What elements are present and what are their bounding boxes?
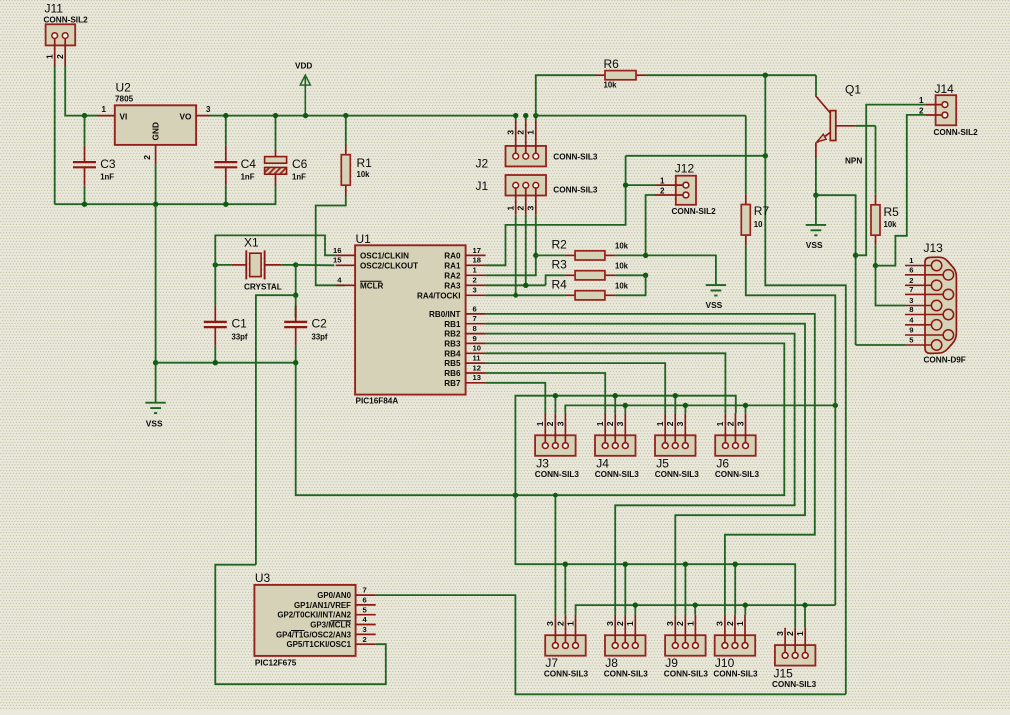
riser J5 pin2 <box>674 396 676 414</box>
svg-text:J13: J13 <box>924 241 944 255</box>
svg-text:J10: J10 <box>715 656 735 670</box>
J13 pin 5 hole <box>931 340 941 350</box>
svg-text:2: 2 <box>55 54 65 59</box>
riser J10 pin2 <box>734 564 736 615</box>
svg-text:R4: R4 <box>552 278 568 292</box>
wire RB2 to J8 pin3 <box>486 334 795 615</box>
riser J3 pin2 <box>554 396 556 414</box>
junction crystal right <box>293 262 298 267</box>
wire to J13 pin5 <box>856 344 905 346</box>
svg-text:3: 3 <box>715 621 725 626</box>
U3 pin 6 GP1/AN1/VREF <box>356 604 376 606</box>
riser J5 pin3 <box>684 405 686 413</box>
wire J11 pin2 to VDD rail <box>65 66 84 116</box>
wire R5 node to J14 pin2 <box>876 115 926 266</box>
wire VDD rail J2 to R7 <box>536 115 746 117</box>
connector J7 CONN-SIL3 <box>545 635 586 656</box>
U1 pin 3 RA4/TOCKI <box>466 294 486 296</box>
resistor R6 10k <box>595 74 605 76</box>
connector J8 CONN-SIL3 <box>605 635 646 656</box>
svg-text:3: 3 <box>615 421 625 426</box>
wire R5 bottom node <box>875 246 877 266</box>
svg-text:2: 2 <box>516 206 526 211</box>
svg-text:R7: R7 <box>754 204 770 218</box>
svg-text:GP0/AN0: GP0/AN0 <box>317 591 351 600</box>
J13 pin 7 hole <box>943 289 953 299</box>
U1 pin 16 OSC1/CLKIN <box>336 254 355 256</box>
svg-text:R1: R1 <box>357 156 373 170</box>
svg-text:2: 2 <box>725 621 735 626</box>
svg-text:33pf: 33pf <box>312 333 328 342</box>
J13 pin 8 hole <box>943 309 953 319</box>
svg-text:1: 1 <box>595 421 605 426</box>
svg-text:18: 18 <box>473 256 481 265</box>
capacitor C1 <box>214 265 216 306</box>
svg-text:VO: VO <box>180 112 193 122</box>
U1 MCLR overline <box>360 280 382 282</box>
svg-text:R3: R3 <box>552 258 568 272</box>
svg-text:17: 17 <box>473 246 481 255</box>
svg-text:J7: J7 <box>545 656 558 670</box>
svg-text:2: 2 <box>665 421 675 426</box>
svg-text:7: 7 <box>909 285 913 294</box>
crystal X1 <box>232 264 247 266</box>
U1 pin 10 RB4 <box>466 352 486 354</box>
resistor R3 10k <box>565 274 575 276</box>
svg-text:6: 6 <box>473 304 477 313</box>
svg-text:2: 2 <box>555 621 565 626</box>
ground symbol VSS middle <box>706 284 726 286</box>
U3 GP3 MCLR overline <box>331 620 352 622</box>
svg-text:GP4/T1G/OSC2/AN3: GP4/T1G/OSC2/AN3 <box>276 630 352 639</box>
svg-text:GND: GND <box>151 122 161 140</box>
svg-text:J14: J14 <box>935 82 955 96</box>
U1 pin 11 RB5 <box>466 362 486 364</box>
svg-text:VSS: VSS <box>806 240 823 250</box>
U2 pin 2 GND stub <box>155 145 157 164</box>
svg-text:10k: 10k <box>884 220 898 229</box>
bus pin1 of J7-J10 J15 <box>576 605 836 615</box>
connector J15 CONN-SIL3 <box>775 645 816 666</box>
U2 pin 1 VI stub <box>97 115 115 117</box>
wire J1 pin3 riser to RA2 row <box>486 215 536 276</box>
svg-text:RB3: RB3 <box>444 340 461 349</box>
svg-text:RA4/TOCKI: RA4/TOCKI <box>417 291 460 300</box>
svg-text:PIC12F675: PIC12F675 <box>255 659 297 668</box>
J13 pin 2 hole <box>931 280 941 290</box>
svg-text:J1: J1 <box>476 179 489 193</box>
connector J4 CONN-SIL3 <box>595 435 636 456</box>
connector J14 CONN-SIL2 <box>936 95 957 125</box>
IC U1 PIC16F84A <box>355 245 466 394</box>
bus pin2 of J7-J10 J15 <box>515 495 795 628</box>
svg-text:1: 1 <box>685 621 695 626</box>
svg-text:13: 13 <box>473 373 481 382</box>
J13 pin 7 stub <box>905 293 944 295</box>
wire R7 bottom to J buses <box>746 246 836 605</box>
svg-text:GP5/T1CKI/OSC1: GP5/T1CKI/OSC1 <box>287 640 352 649</box>
U3 pin 4 GP3/MCLR <box>356 624 376 626</box>
svg-text:2: 2 <box>142 155 152 160</box>
svg-text:J3: J3 <box>536 457 549 471</box>
junction J2 pin3 <box>513 113 518 118</box>
U2 pin 3 VO stub <box>196 115 210 117</box>
svg-text:NPN: NPN <box>845 157 862 166</box>
svg-text:J4: J4 <box>596 457 609 471</box>
junction R2 branch <box>533 253 538 258</box>
junction R1 top <box>343 113 348 118</box>
junction J14 pin1 join <box>853 253 858 258</box>
capacitor C6 electrolytic <box>275 116 277 151</box>
svg-text:1nF: 1nF <box>100 173 114 182</box>
wire J7 pin3 riser <box>554 495 556 615</box>
svg-text:6: 6 <box>909 265 913 274</box>
svg-text:GP3/MCLR: GP3/MCLR <box>310 621 351 630</box>
svg-text:CONN-SIL3: CONN-SIL3 <box>664 670 709 679</box>
U3 pin 5 GP2/T0CKI/INT/AN2 <box>356 614 376 616</box>
J13 pin 4 hole <box>931 320 941 330</box>
connector J10 CONN-SIL3 <box>715 635 756 656</box>
svg-text:C6: C6 <box>292 157 308 171</box>
wire RB1 to J9 pin3 <box>486 324 805 615</box>
J13 pin 8 stub <box>905 314 944 316</box>
junction J7 pin3 branch <box>553 493 558 498</box>
J13 pin 1 stub <box>905 265 932 267</box>
wire clock branch to U3 column <box>256 295 296 565</box>
junction C2 bottom <box>293 360 298 365</box>
VSS rail under crystal <box>156 362 296 364</box>
svg-text:1: 1 <box>45 54 55 59</box>
svg-text:J5: J5 <box>656 457 669 471</box>
wire riser x765 down <box>765 75 846 694</box>
power symbol VDD <box>300 75 310 85</box>
svg-text:2: 2 <box>785 631 795 636</box>
svg-text:VDD: VDD <box>295 62 312 71</box>
svg-text:CONN-SIL2: CONN-SIL2 <box>44 15 89 24</box>
svg-text:CONN-SIL2: CONN-SIL2 <box>934 128 979 137</box>
J13 pin 3 hole <box>931 300 941 310</box>
junction at VSS rail <box>153 360 158 365</box>
riser J4 pin2 <box>614 396 616 414</box>
junction R2 VSS net <box>643 253 648 258</box>
svg-text:Q1: Q1 <box>845 83 861 97</box>
svg-text:2: 2 <box>615 621 625 626</box>
wire Q1 emitter down <box>815 143 817 158</box>
svg-text:2: 2 <box>545 421 555 426</box>
wire J1 pin2 riser to RA3 row <box>525 215 527 286</box>
svg-text:10k: 10k <box>604 81 618 90</box>
svg-text:9: 9 <box>473 334 477 343</box>
svg-text:1: 1 <box>565 621 575 626</box>
svg-text:RA3: RA3 <box>444 281 461 290</box>
riser J10 pin1 <box>744 605 746 615</box>
svg-text:2: 2 <box>919 106 924 115</box>
svg-text:R6: R6 <box>604 57 620 71</box>
junction C1 bottom <box>213 360 218 365</box>
junction R7 net at bus <box>833 403 838 408</box>
wire R1 bottom to U1 MCLR <box>316 196 346 285</box>
wire R6 left to VDD rail <box>536 75 595 115</box>
svg-text:9: 9 <box>909 326 913 335</box>
svg-text:3: 3 <box>665 621 675 626</box>
svg-text:2: 2 <box>909 276 913 285</box>
resistor R2 10k <box>565 254 575 256</box>
svg-text:RA2: RA2 <box>444 271 461 280</box>
svg-text:2: 2 <box>473 276 477 285</box>
riser J15 pin1 <box>804 605 806 628</box>
wire VDD rail C4 to J2 <box>226 115 516 117</box>
wire J14 pin1 to emitter net <box>856 105 926 256</box>
svg-text:CONN-SIL2: CONN-SIL2 <box>672 207 717 216</box>
svg-text:33pf: 33pf <box>232 333 248 342</box>
svg-text:VI: VI <box>120 112 128 122</box>
U3 pin 3 GP4/T1G/OSC2/AN3 <box>356 633 376 635</box>
svg-text:RB1: RB1 <box>444 320 461 329</box>
riser J9 pin2 <box>684 564 686 615</box>
capacitor C2 <box>295 305 297 317</box>
svg-text:2: 2 <box>725 421 735 426</box>
resistor R1 10k <box>345 146 347 155</box>
svg-text:U1: U1 <box>356 232 372 246</box>
wire net y155 to right riser <box>626 155 766 157</box>
wire R5 node to J13 pin3 <box>876 266 906 306</box>
wire R5 top riser <box>875 126 877 195</box>
regulator U2 7805 <box>115 105 196 145</box>
svg-text:CONN-D9F: CONN-D9F <box>924 356 966 365</box>
junction J1 pin2 at RA3 <box>523 283 528 288</box>
svg-text:RB2: RB2 <box>444 330 461 339</box>
J13 pin 4 stub <box>905 324 932 326</box>
IC U3 PIC12F675 <box>254 585 355 656</box>
svg-text:CONN-SIL3: CONN-SIL3 <box>713 670 758 679</box>
svg-text:J15: J15 <box>774 667 794 681</box>
wire RB4 to J6 pin1 <box>486 353 726 413</box>
svg-text:2: 2 <box>675 621 685 626</box>
svg-text:X1: X1 <box>244 236 259 250</box>
svg-text:7: 7 <box>363 586 367 595</box>
svg-text:MCLR: MCLR <box>360 281 384 290</box>
svg-text:J2: J2 <box>476 157 489 171</box>
svg-text:CONN-SIL3: CONN-SIL3 <box>595 470 640 479</box>
svg-text:2: 2 <box>363 635 367 644</box>
bus pin3 of J3-J6 <box>565 405 835 413</box>
J13 pin 1 hole <box>931 260 941 270</box>
svg-text:CONN-SIL3: CONN-SIL3 <box>604 670 649 679</box>
U1 pin 18 RA1 <box>466 264 486 266</box>
svg-text:CONN-SIL3: CONN-SIL3 <box>553 186 598 195</box>
wire RA4 row to R4 <box>486 294 565 296</box>
svg-text:J9: J9 <box>665 656 678 670</box>
svg-text:GP2/T0CKI/INT/AN2: GP2/T0CKI/INT/AN2 <box>277 611 351 620</box>
junction R3 right <box>643 273 648 278</box>
svg-text:CRYSTAL: CRYSTAL <box>244 283 282 292</box>
svg-text:RA0: RA0 <box>444 252 461 261</box>
svg-text:U3: U3 <box>255 571 271 585</box>
U1 pin 7 RB1 <box>466 323 486 325</box>
svg-text:1: 1 <box>715 421 725 426</box>
svg-text:GP1/AN1/VREF: GP1/AN1/VREF <box>294 601 351 610</box>
svg-text:RB5: RB5 <box>444 359 461 368</box>
svg-text:2: 2 <box>605 421 615 426</box>
svg-text:7805: 7805 <box>115 95 134 104</box>
junction C4 bottom <box>223 202 228 207</box>
svg-text:OSC1/CLKIN: OSC1/CLKIN <box>360 252 409 261</box>
svg-text:1: 1 <box>660 177 665 186</box>
svg-text:3: 3 <box>909 296 913 305</box>
svg-text:1: 1 <box>919 96 924 105</box>
svg-text:10k: 10k <box>615 282 629 291</box>
junction U2 GND bottom <box>153 202 158 207</box>
J13 pin 5 stub <box>905 344 932 346</box>
svg-text:16: 16 <box>333 246 341 255</box>
U1 pin 1 RA2 <box>466 274 486 276</box>
svg-text:3: 3 <box>545 621 555 626</box>
svg-text:VSS: VSS <box>706 300 723 310</box>
junction C4 top <box>223 113 228 118</box>
resistor R4 10k <box>565 294 575 296</box>
U1 pin 9 RB3 <box>466 342 486 344</box>
connector J12 CONN-SIL2 <box>676 176 696 205</box>
J13 pin 3 stub <box>905 305 932 307</box>
svg-text:12: 12 <box>473 363 481 372</box>
wire J12 pin1 net to RA1 <box>626 184 657 186</box>
svg-text:1: 1 <box>535 421 545 426</box>
svg-text:7: 7 <box>473 314 477 323</box>
riser J6 pin3 <box>745 405 747 413</box>
svg-text:8: 8 <box>473 324 477 333</box>
svg-text:1nF: 1nF <box>241 173 255 182</box>
svg-text:3: 3 <box>206 105 211 114</box>
wire R3 right to VSS net <box>616 274 646 276</box>
resistor R5 10k <box>875 195 877 205</box>
svg-text:C1: C1 <box>232 317 248 331</box>
svg-text:CONN-SIL3: CONN-SIL3 <box>553 153 598 162</box>
wire VO to VDD rail <box>210 115 226 117</box>
svg-text:15: 15 <box>333 256 342 265</box>
J13 pin 6 hole <box>943 270 953 280</box>
svg-text:J8: J8 <box>605 656 618 670</box>
junction VDD <box>303 113 308 118</box>
svg-text:1: 1 <box>102 105 107 114</box>
U1 pin 12 RB6 <box>466 372 486 374</box>
junction Q1 emitter node <box>813 193 818 198</box>
svg-text:2: 2 <box>516 130 526 135</box>
wire RA3 row <box>486 284 546 286</box>
capacitor C3 <box>84 116 86 146</box>
svg-text:1: 1 <box>735 621 745 626</box>
resistor R7 10 <box>745 194 747 204</box>
wire RB5 to J5 pin1 <box>486 363 666 413</box>
capacitor C4 <box>225 116 227 146</box>
wire OSC1 net <box>215 235 335 265</box>
svg-text:VSS: VSS <box>146 419 163 429</box>
U1 pin 15 OSC2/CLKOUT <box>336 264 355 266</box>
junction crystal left <box>213 262 218 267</box>
svg-text:1: 1 <box>506 206 516 211</box>
svg-text:3: 3 <box>775 631 785 636</box>
J13 pin 2 stub <box>905 284 932 286</box>
wire R6 right to Q1 collector <box>646 74 816 76</box>
wire U3 GP0 to bottom bus <box>376 595 846 694</box>
riser J4 pin3 <box>624 405 626 413</box>
svg-text:RB0/INT: RB0/INT <box>429 310 461 319</box>
ground rail y204 <box>55 203 226 205</box>
svg-text:C4: C4 <box>241 157 257 171</box>
riser J9 pin1 <box>694 605 696 615</box>
svg-text:1nF: 1nF <box>292 173 306 182</box>
wire R2 right to VSS <box>616 255 716 285</box>
connector J11 CONN-SIL2 <box>46 24 76 45</box>
connector J2 CONN-SIL3 <box>506 146 547 167</box>
svg-text:RA1: RA1 <box>444 261 461 270</box>
svg-text:10k: 10k <box>357 170 371 179</box>
junction R6 net <box>763 73 768 78</box>
svg-text:PIC16F84A: PIC16F84A <box>356 397 399 406</box>
wire J1 pin1 riser to RA4 row <box>515 215 517 296</box>
ground symbol VSS left <box>145 402 165 404</box>
svg-text:R2: R2 <box>552 238 568 252</box>
svg-text:8: 8 <box>909 305 913 314</box>
svg-text:6: 6 <box>363 596 367 605</box>
connector J5 CONN-SIL3 <box>655 435 696 456</box>
U1 pin 8 RB2 <box>466 333 486 335</box>
svg-text:R5: R5 <box>884 205 900 219</box>
svg-text:CONN-SIL3: CONN-SIL3 <box>535 470 580 479</box>
wire clock into U3 GP5 <box>215 565 385 685</box>
U3 pin 7 GP0/AN0 <box>356 594 376 596</box>
svg-text:3: 3 <box>506 130 516 135</box>
svg-text:3: 3 <box>735 421 745 426</box>
svg-text:J12: J12 <box>675 162 695 176</box>
riser J8 pin2 <box>624 564 626 615</box>
svg-text:RB4: RB4 <box>444 349 461 358</box>
wire C6 bottom to ground rail <box>226 186 276 205</box>
J13 pin 9 stub <box>905 334 944 336</box>
svg-text:C3: C3 <box>100 157 116 171</box>
wire OSC2 net <box>296 264 335 266</box>
wire ground rail down to VSS <box>155 204 157 363</box>
wire emitter node to J13 pin5 net <box>816 195 856 345</box>
wire down to C2 <box>295 295 297 317</box>
wire R4 right up to VSS net <box>616 275 646 295</box>
ground symbol VSS right <box>806 224 826 226</box>
svg-text:3: 3 <box>605 621 615 626</box>
svg-text:CONN-SIL3: CONN-SIL3 <box>544 670 589 679</box>
wire R3 left step from RA3 row <box>546 275 565 285</box>
svg-text:RB7: RB7 <box>444 379 461 388</box>
riser J7 pin2 <box>564 564 566 615</box>
wire RB0 to J10 pin3 <box>486 314 815 615</box>
junction J12 pin1 <box>623 182 628 187</box>
wire RB6 to J4 pin1 <box>486 373 606 413</box>
wire U2 GND down to ground rail <box>155 164 157 204</box>
svg-text:10: 10 <box>473 344 481 353</box>
junction J2 pin1 <box>533 113 538 118</box>
svg-text:J6: J6 <box>716 457 729 471</box>
bus pin2 of J3-J6 <box>515 396 735 496</box>
wire crystal right net <box>281 264 295 266</box>
svg-text:3: 3 <box>675 421 685 426</box>
junction C3 bottom <box>82 202 87 207</box>
U1 pin 4 MCLR <box>336 284 355 286</box>
svg-text:1: 1 <box>795 631 805 636</box>
wire VSS stem <box>155 363 157 403</box>
svg-text:CONN-SIL3: CONN-SIL3 <box>655 470 700 479</box>
wire emitter to VSS <box>815 195 817 225</box>
svg-text:1: 1 <box>526 130 536 135</box>
svg-text:CONN-SIL3: CONN-SIL3 <box>772 680 817 689</box>
J13 pin 6 stub <box>905 274 944 276</box>
